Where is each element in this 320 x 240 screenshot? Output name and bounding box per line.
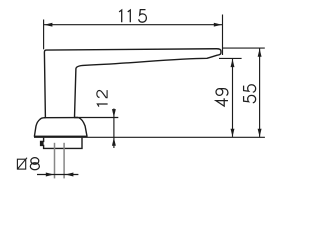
- square spindle right edge: [63, 143, 65, 179]
- dim 115: right extension line: [222, 15, 224, 56]
- dim square 8: value label "8": [30, 158, 39, 170]
- dim 49: top arrowhead: [231, 59, 235, 67]
- dim 115: value label "115": [119, 10, 146, 23]
- dim 12: top extension line: [79, 117, 118, 119]
- dim 49: bottom arrowhead: [231, 129, 235, 137]
- dim 55: top extension line: [223, 47, 265, 49]
- dim 12: value label "12" (rotated): [97, 90, 108, 106]
- clip notch on plate left edge: [40, 141, 43, 146]
- dim 55: top arrowhead: [258, 49, 262, 57]
- handle body outline (lever arm, neck and rosette cap, side view): [34, 49, 221, 137]
- dim 12: upper arrowhead (pointing down): [112, 109, 116, 117]
- dim 12: lower arrowhead (pointing up): [112, 138, 116, 146]
- dim 49: dimension line: [232, 59, 234, 137]
- square-spindle symbol diagonal: [17, 158, 27, 169]
- rosette cap bottom edge (thick): [34, 136, 87, 138]
- dim square 8: dimension line: [37, 174, 78, 176]
- dim 115: right arrowhead: [214, 23, 222, 27]
- mounting surface reference line: [34, 136, 265, 138]
- dim 115: left extension line: [43, 20, 45, 50]
- rosette cap rim edge passing behind neck: [44, 117, 79, 119]
- fixing plate below mounting surface: [41, 138, 82, 149]
- square-spindle symbol box: [17, 159, 25, 169]
- dim 49: top extension line: [219, 57, 242, 59]
- dim square 8: left arrowhead (pointing right): [46, 173, 54, 177]
- dim 115: left arrowhead: [44, 23, 52, 27]
- dim 12: dimension line: [113, 109, 115, 149]
- dim 55: bottom arrowhead: [258, 129, 262, 137]
- dim 55: value label "55" (rotated): [244, 85, 256, 103]
- dim 49: value label "49" (rotated): [216, 89, 228, 107]
- dim 55: dimension line: [259, 49, 261, 137]
- square spindle left edge: [54, 143, 56, 179]
- dim 115: dimension line: [44, 24, 223, 26]
- dim square 8: right arrowhead (pointing left): [65, 173, 73, 177]
